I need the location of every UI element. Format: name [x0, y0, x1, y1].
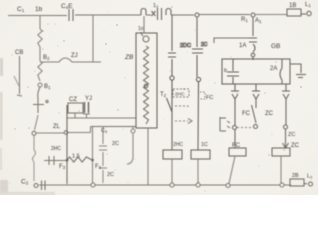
terminal L2	[304, 182, 313, 186]
ZB stem top	[143, 16, 145, 33]
resistor 1.5	[68, 157, 92, 162]
wire H3 ZL	[36, 132, 64, 134]
contact bracket x220	[220, 117, 230, 131]
switch blade FC	[252, 104, 257, 123]
wire top rail left segment	[8, 15, 67, 17]
spark-gap chain x38	[33, 87, 48, 130]
wire V7 lower	[197, 82, 200, 151]
svg-text:CZ: CZ	[69, 97, 77, 103]
relay coil ZC box	[272, 148, 290, 156]
2HC coil stem	[171, 159, 173, 183]
FC coil stem	[229, 156, 235, 184]
contact 2HC left branch	[44, 156, 66, 165]
rail node circles	[91, 183, 284, 188]
socket CZ box	[68, 103, 83, 113]
lamp circle top of ZB	[141, 32, 149, 42]
svg-text:1C: 1C	[201, 142, 208, 148]
chain x38 lower	[33, 136, 36, 182]
junction dot (67,160)	[66, 159, 69, 162]
resistor B2 upper zigzag	[38, 29, 42, 47]
svg-text:2HC: 2HC	[175, 92, 185, 98]
wire H1 with ZJ hump	[40, 58, 101, 62]
svg-text:ZC: ZC	[291, 143, 300, 149]
svg-text:FC: FC	[242, 111, 251, 117]
svg-text:A1: A1	[255, 18, 262, 24]
wire V7 x198	[192, 17, 203, 77]
dashed contact FC mid	[200, 92, 205, 99]
probe CB	[17, 56, 22, 96]
svg-text:2A: 2A	[270, 66, 277, 72]
junction dot (92,160)	[91, 159, 94, 162]
svg-text:2HC: 2HC	[173, 142, 183, 148]
svg-text:ZB: ZB	[124, 54, 134, 61]
junction circle (66,132)	[64, 131, 68, 135]
wire V6 x172 lower	[171, 80, 173, 150]
dashed box 2HC	[173, 89, 189, 97]
arrester YJ	[85, 102, 89, 113]
svg-text:C1: C1	[17, 6, 25, 13]
node circle (197,80)	[196, 77, 200, 81]
rail start circle	[34, 184, 38, 188]
contact top A x235	[231, 84, 239, 104]
scan smudge left edge	[0, 58, 55, 195]
box GB	[222, 59, 290, 84]
svg-text:ZL: ZL	[53, 124, 61, 130]
switch blade T2	[167, 98, 173, 112]
node circle (253,15)	[251, 13, 255, 17]
wire top rail segment 5	[255, 14, 287, 16]
svg-text:2C: 2C	[107, 172, 114, 178]
svg-text:GB: GB	[271, 43, 280, 50]
wire V6 x172 upper	[168, 15, 176, 76]
node circle (234,127)	[233, 126, 237, 130]
svg-text:2HC: 2HC	[51, 146, 61, 152]
svg-text:12: 12	[153, 3, 159, 9]
node circle B1	[38, 83, 42, 87]
capacitor b inside GB	[227, 59, 239, 84]
fuse 2B box	[290, 179, 304, 186]
terminal L1	[301, 11, 311, 15]
relay coil 2HC box	[163, 150, 182, 159]
CZ stem	[74, 113, 76, 118]
svg-text:C4E: C4E	[61, 3, 73, 10]
node circle (197,15)	[195, 13, 199, 17]
svg-text:FC: FC	[232, 143, 241, 149]
1C coil stem	[197, 159, 199, 183]
contact 2C x133	[127, 127, 135, 165]
wire drop x93 upper	[92, 15, 94, 62]
ZC coil stem	[280, 156, 282, 183]
node circle (146,86)	[144, 84, 148, 88]
svg-text:C2: C2	[21, 179, 29, 186]
wire top rail segment 3	[146, 14, 194, 16]
wire branch y38	[214, 38, 249, 43]
ZB stem bottom	[147, 128, 149, 185]
wire top rail segment 2	[75, 14, 141, 16]
relay coil 1C box	[191, 150, 210, 159]
capacitor C4E	[69, 9, 73, 21]
svg-text:FC: FC	[206, 95, 213, 101]
svg-text:YJ: YJ	[85, 96, 92, 102]
svg-text:1A: 1A	[239, 43, 246, 49]
scan noise speckles	[10, 6, 309, 191]
svg-text:C5: C5	[101, 128, 108, 134]
svg-text:b: b	[224, 68, 227, 74]
svg-text:1o: 1o	[138, 26, 144, 32]
fuse 1B box	[287, 9, 301, 16]
wire drop x40 (1b)	[39, 15, 41, 29]
svg-text:2C: 2C	[112, 141, 119, 147]
wire top rail segment 4	[199, 14, 250, 16]
svg-text:ZC: ZC	[288, 132, 295, 138]
wire H2b and V5 x92 lower	[91, 126, 137, 128]
svg-text:F4: F4	[95, 164, 102, 170]
svg-text:1B: 1B	[289, 3, 296, 9]
contact top C x286	[282, 84, 290, 104]
svg-text:ZC: ZC	[265, 111, 274, 117]
node circle (34,133)	[32, 131, 36, 135]
transformer ZB box	[136, 33, 157, 128]
svg-text:1.5: 1.5	[72, 154, 80, 160]
K mark	[14, 76, 19, 86]
wire H2	[67, 117, 136, 119]
wire V8 x253 with capacitor and coil	[249, 17, 257, 60]
wire V4 x70	[66, 105, 68, 184]
wire col A to FC coil	[234, 130, 236, 149]
capacitor C2 in rail	[42, 181, 46, 191]
node circle (172,78)	[170, 76, 174, 80]
bottom rail	[39, 184, 291, 186]
svg-text:B1: B1	[44, 84, 51, 90]
node B2	[39, 47, 41, 61]
wire col C down	[285, 104, 287, 125]
wire col A down	[234, 104, 236, 125]
svg-text:B2: B2	[43, 55, 50, 61]
node circle (285,127)	[284, 125, 288, 129]
svg-text:L2: L2	[307, 174, 313, 180]
YJ bottom link and stem	[83, 114, 90, 118]
transformer ZB winding	[144, 46, 149, 124]
svg-text:ZJ: ZJ	[71, 53, 78, 59]
arrow to ZC coil	[283, 129, 289, 148]
resistor B1 lower zigzag	[38, 61, 42, 81]
svg-text:R1: R1	[241, 17, 248, 23]
contact top B x256	[252, 84, 260, 104]
dashed link contacts	[237, 127, 252, 129]
svg-text:1b: 1b	[35, 6, 43, 13]
svg-text:F3: F3	[59, 164, 66, 170]
svg-text:2B: 2B	[292, 173, 299, 179]
node circle (255,126)	[254, 125, 258, 129]
dashed link lines	[175, 106, 188, 121]
ground right of GB	[290, 64, 306, 78]
svg-text:L1: L1	[305, 2, 311, 8]
coil 2A inside GB	[280, 59, 282, 84]
svg-text:CB: CB	[15, 50, 23, 56]
svg-text:T2: T2	[160, 92, 167, 98]
capacitor chain x103	[99, 127, 107, 184]
plug-switch 1-2	[141, 8, 171, 20]
relay coil FC box	[229, 148, 246, 156]
